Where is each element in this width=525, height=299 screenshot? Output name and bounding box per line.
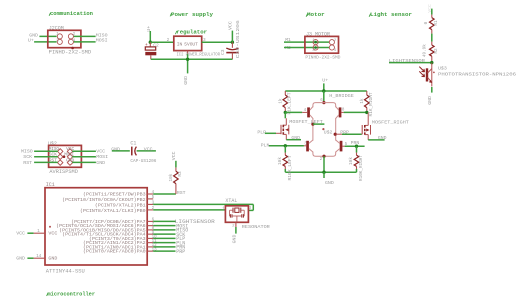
resistor R1K_RIGHT 1k bbox=[360, 91, 374, 117]
svg-text:(PCINT10/INT0/OC0A/CKOUT)PB2: (PCINT10/INT0/OC0A/CKOUT)PB2 bbox=[62, 198, 146, 203]
name IC1 bbox=[46, 182, 55, 188]
svg-text:1k: 1k bbox=[360, 98, 365, 104]
wire VCC from ISP bbox=[72, 149, 105, 155]
wire PRN from pin 12 bbox=[153, 245, 185, 251]
svg-text:MOSFET_RIGHT: MOSFET_RIGHT bbox=[372, 120, 409, 126]
section title: microcontroller bbox=[47, 290, 96, 297]
wire RST to ISP bbox=[23, 160, 58, 166]
svg-text:R3: R3 bbox=[178, 171, 183, 177]
wire bridge bottom to GND rail bbox=[323, 156, 325, 172]
svg-text:(PCINT8/XTAL1/CLKI)PB0: (PCINT8/XTAL1/CLKI)PB0 bbox=[80, 209, 146, 214]
svg-text:R1K_RIGHT: R1K_RIGHT bbox=[369, 92, 374, 116]
wire pin 3 to resonator right pin bbox=[153, 204, 253, 211]
resistor R2 49.9k bbox=[422, 42, 439, 63]
wire PLN from pin 11 bbox=[153, 240, 185, 246]
resistor R10K_RIGHT 10k bbox=[349, 146, 364, 181]
phototransistor U$3 bbox=[419, 63, 435, 87]
svg-text:RESONATOR: RESONATOR bbox=[242, 224, 270, 230]
svg-text:Light sensor: Light sensor bbox=[370, 11, 412, 18]
svg-text:GND: GND bbox=[48, 255, 57, 261]
wire between R1 and R2 bbox=[431, 34, 433, 42]
microcontroller IC1 ATTINY44-SSU box bbox=[45, 188, 147, 265]
svg-text:5VOUT: 5VOUT bbox=[184, 42, 198, 48]
svg-text:PRN: PRN bbox=[351, 140, 360, 146]
supply GND below regulator bbox=[183, 76, 189, 85]
name MOSFET_LEFT bbox=[289, 119, 323, 125]
junction on bottom rail bbox=[186, 58, 189, 61]
svg-text:VCC: VCC bbox=[144, 146, 153, 152]
svg-text:C2: C2 bbox=[153, 43, 159, 49]
svg-text:microcontroller: microcontroller bbox=[48, 290, 96, 297]
resistor R1K_LEFT 1k bbox=[279, 91, 293, 115]
transistor top-left of bridge bbox=[302, 107, 313, 119]
bridge mid-left output stub bbox=[313, 123, 325, 125]
IC1 right pin stubs and numbers bbox=[147, 191, 157, 252]
svg-text:GND: GND bbox=[183, 76, 189, 85]
svg-text:R1K_LEFT: R1K_LEFT bbox=[288, 92, 293, 114]
svg-text:VCC: VCC bbox=[227, 21, 233, 30]
capacitor C1 CAP-US1206 bbox=[111, 140, 156, 163]
wire MISO to ISP bbox=[21, 149, 58, 155]
svg-text:U+: U+ bbox=[146, 26, 152, 32]
name U$2 of bridge with origin dot bbox=[322, 128, 332, 135]
value ATTINY44-SSU bbox=[46, 269, 85, 275]
connector J3 MOTOR PINHD-2X2-SMD bbox=[305, 31, 341, 60]
H-bridge top rail bbox=[285, 90, 367, 92]
svg-text:VCC: VCC bbox=[171, 151, 177, 160]
svg-text:regulator: regulator bbox=[176, 29, 207, 36]
transistor bottom-right of bridge bbox=[336, 140, 348, 152]
junction at C3 / VCC bbox=[231, 41, 234, 44]
name MOSFET_RIGHT bbox=[372, 120, 409, 126]
svg-text:IN: IN bbox=[177, 42, 183, 48]
svg-text:PINHD-2X2-SMD: PINHD-2X2-SMD bbox=[49, 49, 91, 55]
supply VCC stub bbox=[227, 21, 233, 42]
H-bridge bottom GND rail bbox=[285, 171, 356, 173]
wire pin 2 to resonator pin 1 bbox=[153, 207, 225, 211]
IC1 interior pin names bbox=[48, 193, 146, 262]
wire GND from ISP bbox=[72, 160, 105, 166]
resonator GND pin 2 bbox=[232, 222, 236, 233]
resistor R1 0 ohm bbox=[424, 15, 439, 34]
svg-text:PRP: PRP bbox=[176, 249, 185, 255]
connector J2 PINHD-2X2-SMD bbox=[48, 25, 91, 55]
supply label U+ bbox=[146, 26, 152, 32]
transistor bottom-left of bridge bbox=[304, 140, 313, 152]
svg-text:CAP-US1206: CAP-US1206 bbox=[235, 20, 241, 58]
svg-text:R2: R2 bbox=[434, 48, 439, 54]
svg-text:GND: GND bbox=[427, 96, 433, 105]
wire top rail down to bridge pin 6 bbox=[323, 91, 325, 102]
junction GND rail bbox=[322, 171, 325, 174]
wire MISO from J2 pin2 bbox=[74, 32, 108, 38]
svg-text:2: 2 bbox=[167, 38, 170, 43]
IC1 pin 14 GND bbox=[16, 255, 45, 261]
svg-text:GND: GND bbox=[325, 180, 334, 186]
wire PLP from pin 10 bbox=[153, 236, 185, 242]
supply VCC above R3 bbox=[171, 151, 177, 160]
name U$2 of ISP header bbox=[48, 141, 57, 147]
wire MOSI from ISP bbox=[72, 154, 108, 160]
wire node to regulator IN pin 2 bbox=[150, 38, 174, 43]
svg-text:R10K_RIGHT: R10K_RIGHT bbox=[359, 155, 364, 181]
svg-text:(PCINT0/AREF/ADC0)PA0: (PCINT0/AREF/ADC0)PA0 bbox=[83, 250, 146, 255]
bridge mid-right pin stub bbox=[336, 133, 342, 135]
wire U+ to J2 pin3 bbox=[28, 38, 57, 44]
svg-text:VCC: VCC bbox=[427, 4, 433, 13]
svg-text:14: 14 bbox=[36, 255, 42, 259]
svg-text:RST: RST bbox=[177, 190, 186, 196]
wire RST from pin 4 bbox=[153, 190, 185, 196]
supply VCC stub above R1 bbox=[427, 4, 433, 15]
wire left node to bridge pin 4 bbox=[285, 109, 306, 113]
svg-text:IC2 POWER_REGULATOR: IC2 POWER_REGULATOR bbox=[177, 51, 221, 57]
svg-text:(PCINT9/XTAL2)PB1: (PCINT9/XTAL2)PB1 bbox=[95, 204, 146, 209]
svg-text:RST: RST bbox=[23, 160, 32, 166]
svg-text:+: + bbox=[145, 43, 148, 48]
transistor top-right of bridge bbox=[336, 107, 345, 119]
wire LIGHTSENSOR from pin 6 bbox=[153, 219, 215, 225]
wire PLP to left MOSFET gate bbox=[257, 130, 280, 136]
junction right node bbox=[365, 111, 368, 114]
MOSFET_LEFT transistor bbox=[281, 112, 289, 139]
wire MOSI from pin 7 bbox=[153, 223, 188, 229]
svg-text:CAP-US1206: CAP-US1206 bbox=[130, 158, 156, 164]
left MOSFET source GND stub bbox=[286, 135, 301, 141]
junction at phototransistor collector bbox=[430, 61, 433, 64]
net PRN wire at bridge pin 5 bbox=[345, 140, 365, 146]
svg-text:MOSFET_LEFT: MOSFET_LEFT bbox=[289, 119, 323, 125]
regulator OUT pin 3 wire to VCC bbox=[202, 38, 233, 43]
svg-text:MOSI: MOSI bbox=[96, 154, 108, 160]
svg-text:XTAL: XTAL bbox=[225, 198, 237, 204]
svg-text:(PCINT11/RESET/DW)PB3: (PCINT11/RESET/DW)PB3 bbox=[83, 193, 146, 198]
svg-text:PLN: PLN bbox=[261, 142, 270, 148]
section title: Power supply bbox=[170, 11, 213, 18]
svg-text:communication: communication bbox=[50, 10, 93, 17]
junction PLN to R10K_LEFT bbox=[284, 144, 287, 147]
svg-text:GND: GND bbox=[231, 235, 237, 244]
svg-text:SCK: SCK bbox=[23, 154, 32, 160]
wire bridge pin 8 to right node bbox=[344, 111, 367, 113]
junction PRN to R10K_RIGHT bbox=[355, 145, 358, 148]
supply GND below bridge bbox=[324, 172, 334, 186]
svg-text:10k: 10k bbox=[169, 173, 174, 181]
supply GND below resonator bbox=[231, 235, 237, 244]
net LIGHTSENSOR wire bbox=[389, 58, 432, 64]
supply GND below phototransistor bbox=[427, 87, 433, 105]
wire PRP from pin 13 bbox=[153, 249, 185, 255]
capacitor C3 CAP-US1206 bbox=[220, 20, 241, 59]
svg-text:Motor: Motor bbox=[307, 11, 325, 18]
svg-text:PINHD-2X2-SMD: PINHD-2X2-SMD bbox=[305, 55, 340, 61]
wire M1 to J3 pin1-2 bbox=[284, 37, 329, 43]
junction left node bbox=[284, 111, 287, 114]
section title: Light sensor bbox=[369, 11, 412, 18]
svg-text:R10K_LEFT: R10K_LEFT bbox=[288, 155, 293, 180]
bottom rail of power section bbox=[151, 58, 233, 60]
name RESONATOR bbox=[242, 224, 270, 230]
svg-text:U$3: U$3 bbox=[438, 66, 447, 72]
junction U+ on top rail bbox=[322, 89, 325, 92]
wire SCK to ISP bbox=[23, 154, 58, 160]
svg-text:U+: U+ bbox=[322, 77, 328, 83]
svg-text:1k: 1k bbox=[279, 98, 284, 104]
MOSFET_RIGHT transistor bbox=[362, 112, 371, 139]
resistor R10K_LEFT 10k bbox=[278, 146, 293, 181]
right MOSFET source GND stub bbox=[368, 135, 386, 141]
svg-text:10k: 10k bbox=[278, 157, 283, 165]
svg-text:R1: R1 bbox=[434, 20, 439, 26]
svg-text:PHOTOTRANSISTOR-NPN1206: PHOTOTRANSISTOR-NPN1206 bbox=[438, 71, 516, 77]
voltage regulator IC2 bbox=[174, 36, 202, 50]
svg-text:ATTINY44-SSU: ATTINY44-SSU bbox=[46, 269, 85, 275]
svg-text:C3: C3 bbox=[220, 49, 226, 55]
name H_BRIDGE bbox=[329, 93, 354, 99]
svg-text:GND: GND bbox=[378, 135, 387, 141]
svg-text:GND: GND bbox=[291, 135, 300, 141]
svg-text:MISO: MISO bbox=[96, 32, 108, 38]
section title: regulator bbox=[175, 29, 207, 36]
svg-text:VCC: VCC bbox=[16, 231, 25, 237]
svg-text:VCC: VCC bbox=[48, 230, 57, 236]
svg-text:U+: U+ bbox=[28, 38, 34, 44]
ISP header AVRISPSMD bbox=[49, 145, 82, 175]
svg-text:GND: GND bbox=[29, 32, 38, 38]
svg-text:GND: GND bbox=[16, 256, 25, 262]
net PRP wire to right MOSFET gate bbox=[340, 129, 361, 135]
name IC2 POWER_REGULATOR bbox=[177, 51, 221, 57]
junction node at C2 top bbox=[149, 41, 152, 44]
svg-text:AVRISPSMD: AVRISPSMD bbox=[49, 169, 78, 175]
wire MISO from pin 8 bbox=[153, 228, 188, 234]
svg-text:0: 0 bbox=[424, 21, 429, 24]
wire GND to J2 pin1 bbox=[29, 32, 56, 38]
svg-text:MOSI: MOSI bbox=[96, 38, 108, 44]
net label U+ above bridge bbox=[322, 77, 328, 83]
resistor R3 10k pull-up bbox=[169, 161, 183, 194]
IC1 pin 1 VCC bbox=[16, 230, 45, 236]
svg-text:GND: GND bbox=[96, 160, 105, 166]
wire U+ down to top rail bbox=[323, 83, 325, 91]
wire SCK from pin 9 bbox=[153, 232, 185, 238]
svg-text:H_BRIDGE: H_BRIDGE bbox=[329, 93, 354, 99]
wire PLN to bridge pin 3 bbox=[261, 142, 304, 148]
section title: Motor bbox=[306, 11, 325, 18]
name U$3 PHOTOTRANSISTOR-NPN1206 bbox=[438, 66, 516, 78]
svg-text:VCC: VCC bbox=[96, 149, 105, 155]
resonator XTAL bbox=[225, 198, 248, 222]
regulator GND pin wire down bbox=[187, 51, 189, 74]
wire MOSI from J2 pin4 bbox=[74, 38, 108, 44]
svg-text:10k: 10k bbox=[349, 157, 354, 165]
polarized capacitor C2 bbox=[145, 42, 159, 59]
svg-text:49.9k: 49.9k bbox=[422, 44, 427, 57]
svg-text:U$2: U$2 bbox=[324, 129, 333, 135]
wire U+ down to node bbox=[149, 31, 151, 42]
svg-text:C1: C1 bbox=[130, 140, 136, 146]
wire M2 to J3 pin3-4 bbox=[284, 45, 329, 51]
svg-text:Power supply: Power supply bbox=[171, 11, 213, 18]
svg-text:MISO: MISO bbox=[21, 149, 33, 155]
section title: communication bbox=[49, 10, 93, 17]
bridge U$2 body internals bbox=[311, 99, 337, 162]
